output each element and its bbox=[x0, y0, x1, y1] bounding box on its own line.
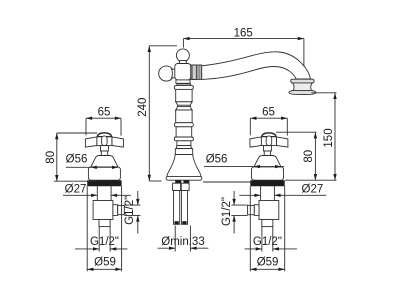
left valve body bbox=[93, 201, 113, 220]
dimension O27 right lines bbox=[239, 194, 326, 197]
dimension 240 line bbox=[148, 46, 177, 181]
svg-text:Ø27: Ø27 bbox=[65, 183, 87, 195]
left valve side port bbox=[113, 205, 118, 216]
dimension G12 side left lines bbox=[124, 191, 140, 234]
dimension 80 left bbox=[54, 133, 97, 181]
right handle neck bbox=[264, 146, 272, 151]
deck extension line right bbox=[285, 179, 337, 181]
column base flange bbox=[166, 176, 202, 180]
svg-text:G1/2": G1/2" bbox=[253, 236, 282, 248]
dimension O59 right line bbox=[250, 268, 284, 271]
right extension lines bottom bbox=[250, 186, 284, 271]
left valve bottom port bbox=[99, 220, 110, 227]
tailpiece studs bbox=[175, 180, 181, 183]
svg-text:165: 165 bbox=[234, 28, 253, 40]
dimension G12 bottom right lines bbox=[245, 247, 297, 250]
left valve shank bbox=[96, 186, 98, 200]
svg-text:Ø56: Ø56 bbox=[206, 153, 228, 165]
right valve side port bbox=[254, 205, 259, 216]
deck line between column and right handle bbox=[203, 181, 250, 183]
left handle stem bbox=[101, 151, 107, 155]
left handle neck bbox=[101, 146, 109, 151]
spout collar ribs bbox=[191, 65, 202, 79]
left handle dome bbox=[97, 133, 111, 137]
left handle skirt bbox=[91, 156, 118, 168]
right handle hub bbox=[261, 137, 276, 146]
tailpiece nuts bbox=[173, 183, 181, 190]
right valve side port cap bbox=[248, 205, 255, 214]
svg-text:150: 150 bbox=[323, 128, 335, 147]
left handle front arm capsule bbox=[102, 136, 108, 146]
dimension O27 left lines bbox=[63, 194, 131, 197]
dimension O56 left bbox=[66, 166, 118, 169]
dimension O56 right bbox=[204, 165, 284, 168]
dimension 165 line bbox=[183, 37, 304, 90]
dimension 65 right line bbox=[250, 117, 287, 136]
spout finial ball bbox=[176, 49, 189, 62]
svg-text:80: 80 bbox=[45, 151, 57, 164]
dimension G12 bottom left lines bbox=[75, 247, 128, 250]
svg-text:240: 240 bbox=[137, 98, 149, 117]
side knob bbox=[159, 66, 174, 81]
right handle skirt bbox=[254, 156, 281, 168]
outlet bell bead bbox=[291, 79, 314, 83]
dimension 150 line bbox=[312, 93, 337, 180]
side knob neck bbox=[172, 69, 176, 78]
right valve body bbox=[259, 201, 279, 220]
svg-text:65: 65 bbox=[262, 107, 275, 119]
dimension 65 left line bbox=[86, 117, 121, 136]
left handle arms bbox=[85, 137, 97, 147]
dimension Omin33 lines bbox=[158, 226, 209, 252]
svg-text:G1/2": G1/2" bbox=[221, 197, 233, 226]
svg-text:Ø59: Ø59 bbox=[94, 256, 116, 268]
right handle base bbox=[252, 167, 284, 180]
supply pipes bbox=[174, 191, 180, 225]
finial neck bbox=[179, 60, 187, 63]
svg-text:Ø27: Ø27 bbox=[302, 183, 324, 195]
column base collar bbox=[175, 149, 192, 155]
svg-text:G1/2": G1/2" bbox=[90, 236, 119, 248]
dimension O59 left line bbox=[87, 268, 121, 271]
svg-text:Ø59: Ø59 bbox=[257, 256, 279, 268]
svg-text:80: 80 bbox=[303, 150, 315, 163]
svg-text:65: 65 bbox=[98, 107, 111, 119]
left handle hub bbox=[97, 137, 112, 146]
right valve bottom port bbox=[262, 220, 273, 227]
right handle stem bbox=[264, 151, 270, 155]
dimension 80 right line bbox=[276, 132, 317, 180]
right handle arms bbox=[276, 137, 288, 147]
spout body cross piece bbox=[175, 64, 191, 80]
column base taper bbox=[176, 146, 191, 149]
outlet bell bottom flare bbox=[289, 90, 316, 94]
column base bell bbox=[167, 155, 201, 177]
svg-text:Ø56: Ø56 bbox=[66, 153, 88, 165]
column shaft segments bbox=[174, 84, 193, 146]
right valve shank bbox=[260, 186, 262, 200]
left valve side port cap bbox=[118, 205, 125, 214]
left base black band bbox=[87, 180, 121, 186]
right handle dome bbox=[262, 133, 276, 137]
svg-text:G1/2": G1/2" bbox=[124, 196, 136, 225]
supply pipe tips bbox=[175, 221, 179, 224]
dimension G12 side right lines bbox=[231, 191, 247, 234]
left extension lines bottom bbox=[87, 186, 121, 271]
right handle front arm capsule bbox=[266, 136, 272, 146]
spout tube bbox=[202, 52, 311, 80]
outlet bell body bbox=[292, 83, 313, 92]
left handle base bbox=[88, 167, 120, 180]
svg-text:Ømin.33: Ømin.33 bbox=[161, 236, 204, 248]
right base black band bbox=[250, 180, 284, 186]
